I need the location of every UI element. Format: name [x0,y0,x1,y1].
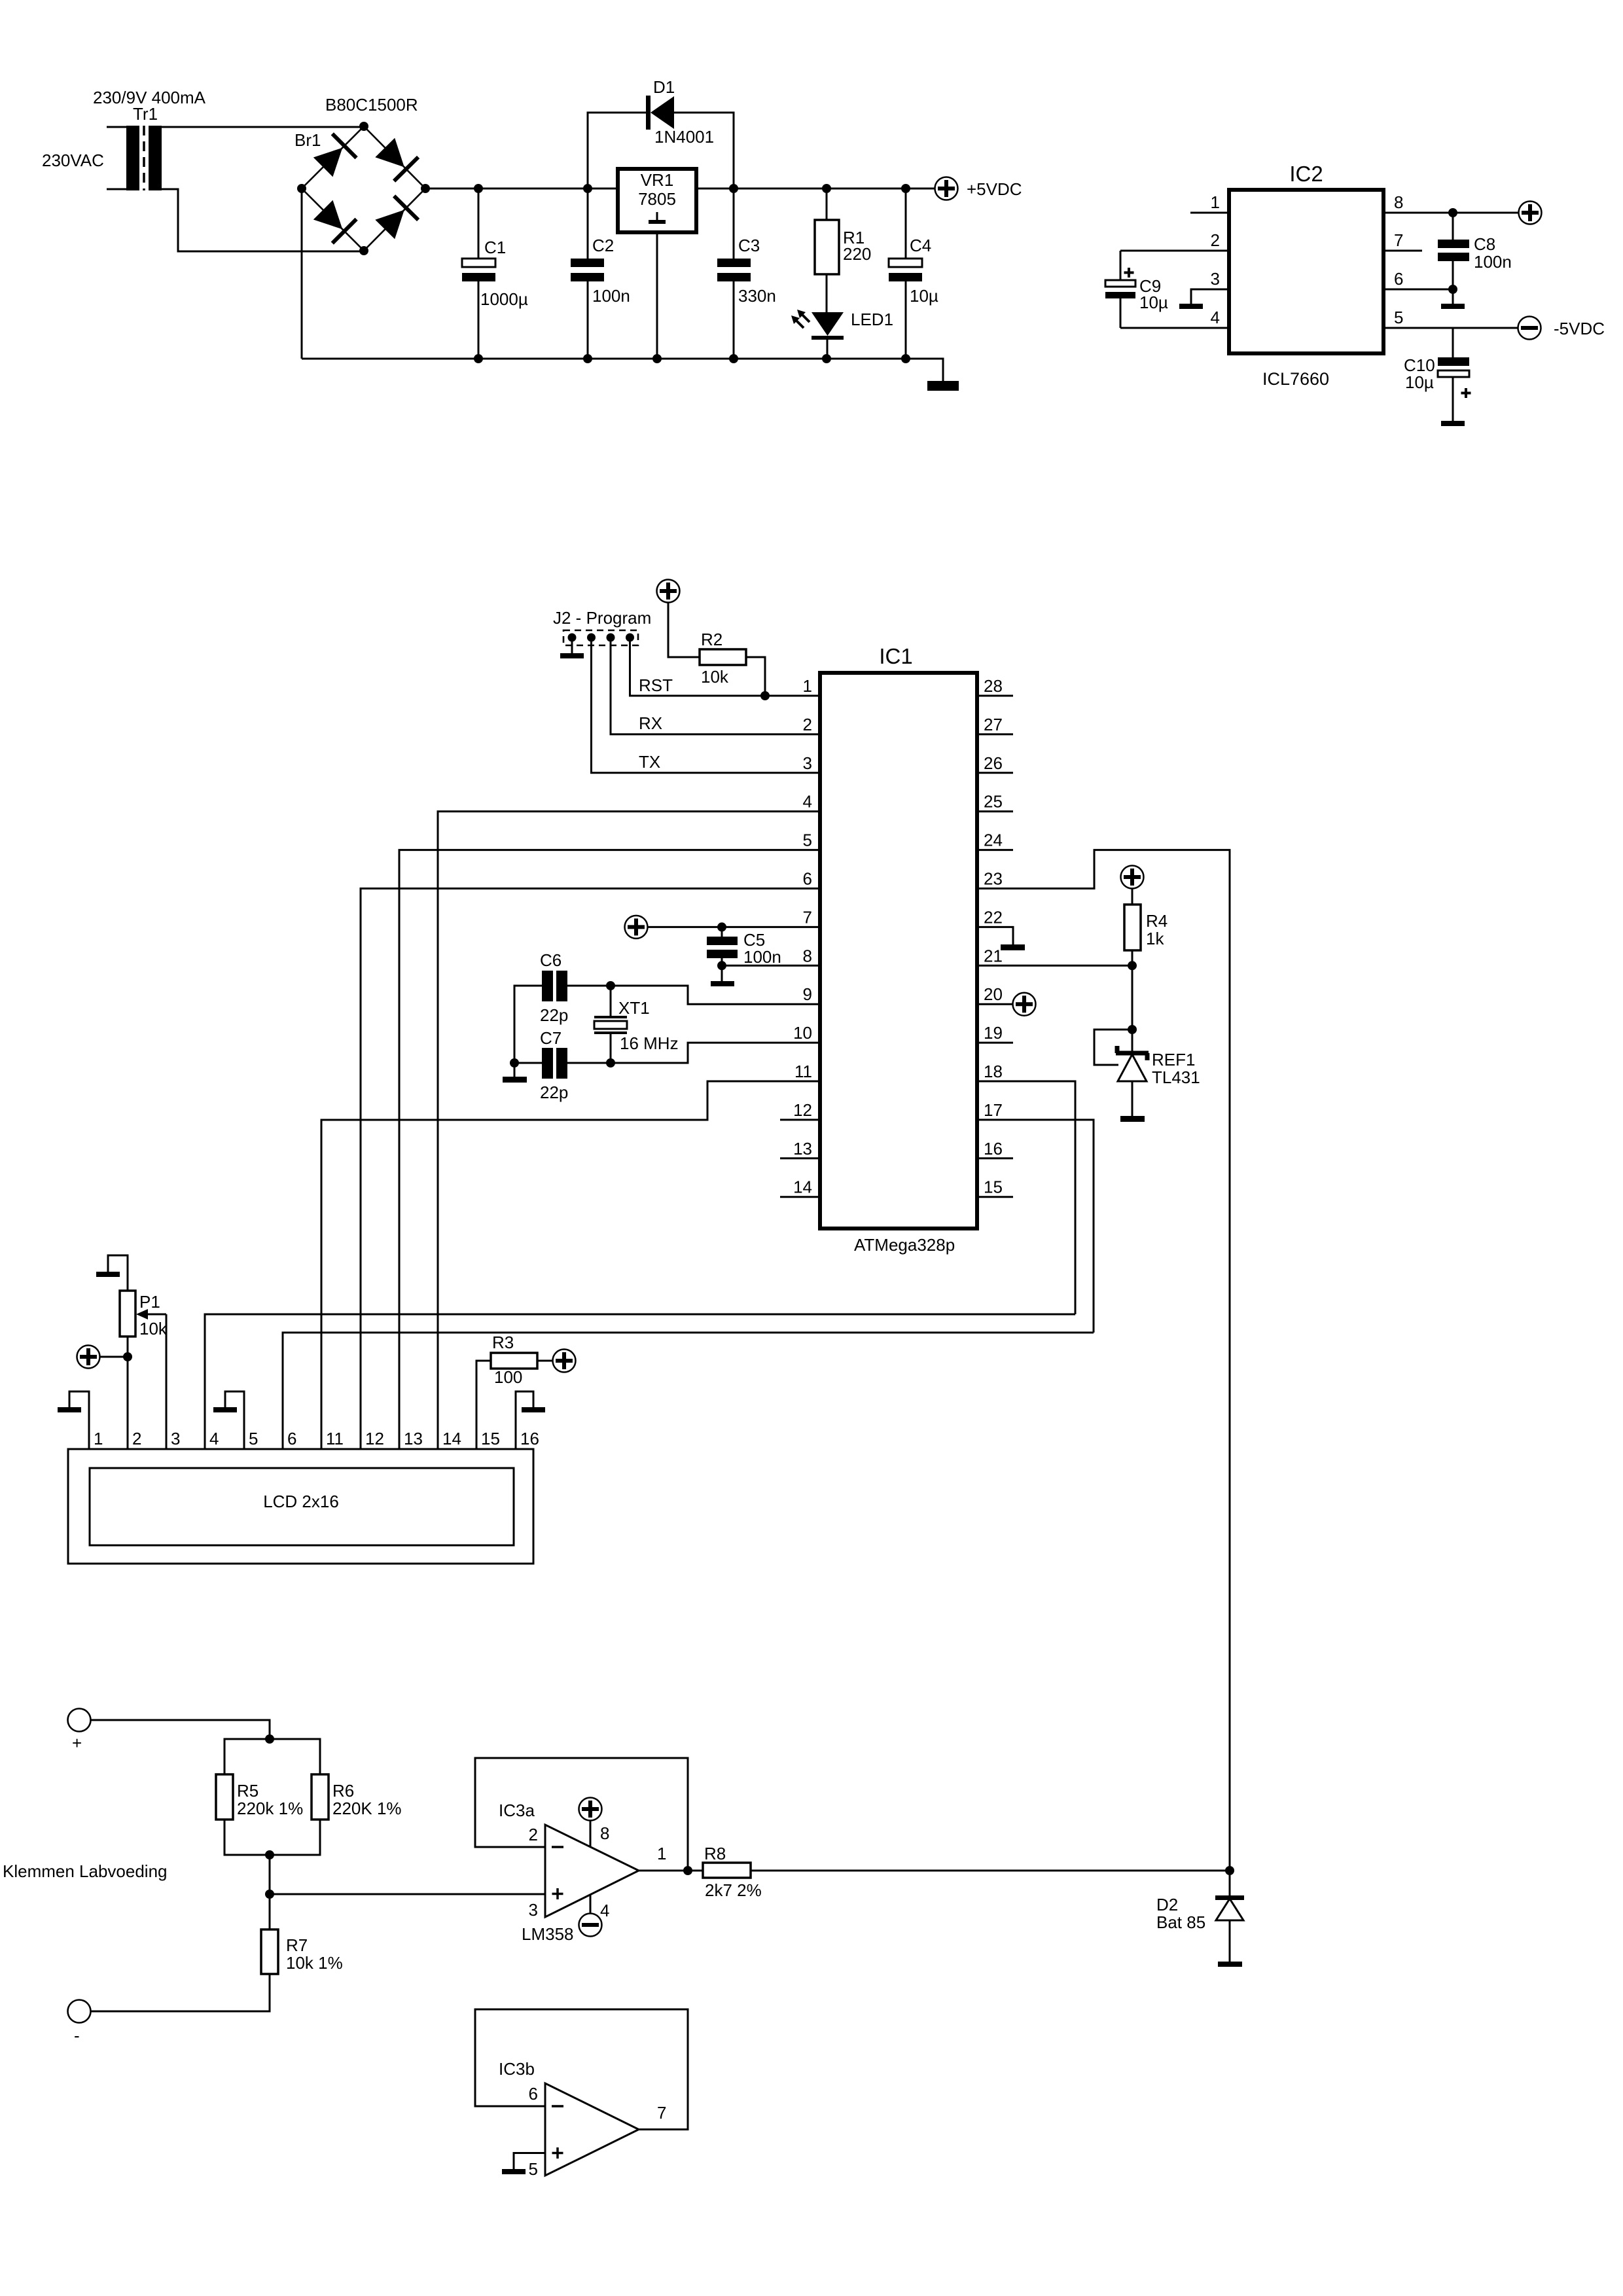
svg-text:-5VDC: -5VDC [1554,319,1605,338]
node right of bridge [421,184,430,193]
pin 6 IC2 [1383,289,1453,291]
svg-text:14: 14 [442,1429,461,1448]
svg-text:220k 1%: 220k 1% [237,1799,303,1818]
svg-text:19: 19 [984,1023,1003,1043]
svg-text:6: 6 [287,1429,296,1448]
svg-text:15: 15 [481,1429,500,1448]
ground at LCD pin 16 [522,1407,545,1412]
plus input terminal [68,1709,91,1732]
svg-text:1: 1 [1211,192,1220,212]
wire plus to R4 [1132,889,1133,905]
svg-text:B80C1500R: B80C1500R [325,95,418,115]
svg-text:100n: 100n [1474,252,1512,272]
wire IC1 pin 17 to LCD pin 6 riser [977,1120,1094,1333]
wire +5V rail right part [696,188,935,190]
schottky diode D2 Bat 85 [1229,1871,1231,1895]
wire IC1 pin 23 to right vertical rail [977,850,1230,1871]
pin 12 IC1 stub [780,1119,820,1121]
svg-text:-: - [74,2026,80,2045]
plus terminal above R4 [1121,866,1144,889]
IC3a plus sign [552,1888,563,1899]
wire VR1 ground pin [656,232,658,359]
svg-text:1N4001: 1N4001 [654,127,714,147]
diode D1 [588,113,647,188]
wire ground rail [302,359,943,381]
svg-text:1: 1 [94,1429,103,1448]
svg-text:16: 16 [520,1429,539,1448]
wire J2 pin1 to ground [571,637,573,653]
transformer Tr1 secondary winding [149,126,162,190]
svg-text:6: 6 [529,2084,538,2104]
IC3a minus sign [552,1846,563,1848]
svg-text:C1: C1 [484,238,506,257]
capacitor C9 [1120,251,1122,280]
transformer Tr1 primary winding [126,126,139,190]
svg-text:J2 - Program: J2 - Program [553,608,651,628]
svg-text:20: 20 [984,984,1003,1004]
pin 14 IC1 stub [780,1196,820,1198]
resistor R5 [216,1774,233,1820]
P1 wiper arrow to LCD pin 3 [145,1314,166,1316]
svg-text:4: 4 [209,1429,219,1448]
pin 25 IC1 stub [977,810,1013,812]
capacitor C4 [905,188,907,259]
svg-text:TX: TX [639,752,660,772]
svg-text:R5: R5 [237,1781,259,1801]
wire R5/R6 top rail [224,1739,320,1774]
svg-text:IC2: IC2 [1289,162,1323,186]
connector J2 dashed outline [563,630,638,645]
svg-text:10k: 10k [139,1319,168,1338]
minus supply terminal IC3a pin 4 [579,1914,602,1937]
svg-text:R4: R4 [1146,911,1168,931]
wire IC1 pin 7 [648,926,820,928]
svg-text:18: 18 [984,1062,1003,1081]
svg-text:C4: C4 [910,236,931,255]
svg-text:VR1: VR1 [641,170,674,190]
svg-text:10µ: 10µ [1139,293,1168,312]
svg-text:10k: 10k [701,667,729,687]
pin 13 IC1 stub [780,1157,820,1159]
svg-text:6: 6 [1394,269,1403,289]
svg-text:10: 10 [793,1023,812,1043]
pin 27 IC1 stub [977,733,1013,735]
ground below C10 [1441,421,1465,426]
svg-text:5: 5 [249,1429,258,1448]
svg-text:R2: R2 [701,630,722,649]
wire R2 to RST node [746,657,765,696]
ground above P1 [96,1272,120,1277]
svg-text:10µ: 10µ [910,286,938,306]
svg-text:28: 28 [984,676,1003,696]
ground at J2 [560,653,584,658]
svg-text:5: 5 [529,2159,538,2179]
bridge diode bottom-right [375,210,404,240]
wire plus to R2 [668,603,700,657]
svg-text:12: 12 [793,1100,812,1120]
svg-text:1: 1 [803,676,812,696]
svg-text:330n: 330n [738,286,776,306]
connector J2 pin 3 [607,634,615,642]
capacitor C3 [733,188,735,259]
IC3a feedback loop wire [475,1758,688,1871]
svg-text:C8: C8 [1474,234,1495,254]
op IC2 box [1229,190,1383,353]
wire IC1 pin 5 to LCD pin 13 [399,850,820,1449]
svg-text:220K 1%: 220K 1% [332,1799,402,1818]
svg-text:XT1: XT1 [618,998,650,1018]
svg-text:22p: 22p [540,1005,568,1025]
svg-text:10k 1%: 10k 1% [286,1953,343,1973]
plus terminal at IC1 pin 7 [625,916,648,939]
svg-text:LM358: LM358 [522,1924,574,1944]
LCD module outer box [68,1449,533,1564]
svg-text:IC3a: IC3a [499,1801,535,1820]
plus supply terminal IC3a pin 8 [579,1798,602,1821]
svg-text:220: 220 [843,244,871,264]
transformer Tr1 core (dashed) [143,126,145,190]
pin 24 IC1 stub [977,849,1013,851]
capacitor C8 [1452,213,1454,240]
terminal bar below D2 [1218,1962,1242,1967]
LCD module inner box [90,1468,514,1545]
wire IC1 pin 11 to LCD pin 11 [321,1081,820,1449]
svg-text:26: 26 [984,753,1003,773]
ground below C8 [1441,304,1465,309]
svg-text:23: 23 [984,869,1003,889]
LED1 emission arrows [794,312,810,328]
svg-text:R6: R6 [332,1781,354,1801]
pin 26 IC1 stub [977,772,1013,774]
LCD pin 6 wire (from IC1 pin 17) [283,1333,1094,1449]
svg-text:1: 1 [657,1844,666,1863]
ground at IC3b pin 5 [502,2169,526,2174]
svg-text:C6: C6 [540,950,562,970]
connector J2 pin 1 [568,634,577,642]
svg-text:RST: RST [639,675,673,695]
svg-text:IC3b: IC3b [499,2059,535,2079]
svg-text:22p: 22p [540,1083,568,1102]
resistor R6 [312,1774,329,1820]
plus terminal at IC1 pin 20 [977,1003,1013,1005]
IC3b minus sign [552,2105,563,2108]
IC3a output wire [639,1870,703,1872]
svg-text:+5VDC: +5VDC [967,179,1022,199]
svg-text:REF1: REF1 [1152,1050,1195,1069]
svg-text:P1: P1 [139,1292,160,1312]
wire R4 node down to REF1 [1132,965,1133,1053]
svg-text:13: 13 [793,1139,812,1158]
pin 4 IC2 [1120,327,1229,329]
svg-text:6: 6 [803,869,812,889]
resistor R2 [700,649,746,665]
capacitor C1 [478,188,480,259]
node divider top [265,1734,274,1744]
svg-text:5: 5 [803,831,812,850]
wire divider mid node [269,1855,271,1929]
pin 28 IC1 stub [977,695,1013,697]
minus terminal -5VDC [1518,317,1541,340]
resistor R8 [703,1863,751,1878]
wire IC1 pin 22 to ground [977,927,1013,944]
LCD pin 4 wire (from IC1 pin 18) [205,1314,1075,1449]
svg-text:7: 7 [803,907,812,927]
svg-text:4: 4 [600,1901,609,1920]
svg-text:17: 17 [984,1100,1003,1120]
LCD pin 15 wire to R3 [476,1361,491,1449]
svg-text:100n: 100n [743,947,781,967]
svg-text:2: 2 [1211,230,1220,250]
node left of bridge [297,184,306,193]
ground main symbol [927,381,959,391]
wire R3 to plus terminal [537,1360,552,1362]
node top of bridge [359,122,368,131]
svg-text:12: 12 [365,1429,384,1448]
op-amp IC3b [545,2083,639,2176]
resistor R7 [261,1929,278,1974]
wire C7 left stub [514,1062,542,1064]
svg-text:3: 3 [1211,269,1220,289]
svg-text:TL431: TL431 [1152,1067,1200,1087]
svg-text:4: 4 [1211,308,1220,327]
LCD pin 1 wire to ground [69,1391,89,1449]
wire to IC3a plus input [270,1893,545,1895]
wire IC1 pin 8 [722,965,820,967]
LCD pin 3 wire [166,1314,168,1449]
svg-text:7: 7 [1394,230,1403,250]
svg-text:Klemmen Labvoeding: Klemmen Labvoeding [3,1861,168,1881]
svg-text:5: 5 [1394,308,1403,327]
capacitor C2 [587,188,589,259]
svg-text:1000µ: 1000µ [480,289,528,309]
wire C6 right to crystal node [567,985,611,987]
svg-text:C3: C3 [738,236,760,255]
svg-text:C7: C7 [540,1028,562,1048]
op-amp IC3a [545,1825,639,1917]
wire primary top [107,126,126,128]
svg-text:15: 15 [984,1177,1003,1197]
pin 1 IC2 [1190,212,1229,214]
svg-text:3: 3 [529,1900,538,1920]
wire R7 to minus terminal [91,1974,270,2011]
svg-text:R3: R3 [492,1333,514,1352]
pin 16 IC1 stub [977,1157,1013,1159]
pin 8 IC2 [1383,212,1518,214]
wire IC1 pin 4 to LCD pin 14 [438,812,820,1449]
minus input terminal [68,2000,91,2023]
junction P1 bottom [123,1352,132,1361]
svg-text:1k: 1k [1146,929,1164,948]
svg-text:D2: D2 [1156,1895,1178,1914]
voltage regulator VR1 [618,169,696,232]
wire TX from J2 pin2 to IC1 pin 3 [592,637,821,773]
svg-text:11: 11 [326,1429,344,1448]
ground at IC2 pin 3 [1179,304,1203,309]
pin 7 IC2 [1383,250,1422,252]
ground below C6/C7 [503,1077,527,1083]
pin 2 IC2 [1120,250,1229,252]
svg-text:8: 8 [1394,192,1403,212]
ground at LCD pin 1 [58,1407,81,1412]
resistor R1 [826,188,828,220]
wire crystal bottom to IC1 pin 10 [611,1043,820,1063]
svg-text:Bat 85: Bat 85 [1156,1912,1205,1932]
wire crystal top to IC1 pin 9 [611,986,820,1004]
svg-text:R7: R7 [286,1935,308,1955]
svg-text:R8: R8 [704,1844,726,1863]
svg-text:RX: RX [639,713,662,733]
bridge rectifier Br1 frame [302,126,425,251]
svg-text:2k7 2%: 2k7 2% [705,1880,762,1900]
LCD pin 2 wire [127,1357,129,1449]
wire IC1 pin 6 to LCD pin 12 [361,889,820,1450]
node bottom of bridge [359,246,368,255]
wire secondary top to bridge [162,126,364,128]
+5VDC power terminal [935,177,958,200]
svg-text:2: 2 [529,1825,538,1844]
plus terminal at IC2 pin 8 [1519,202,1542,224]
wire +5V rail left part [425,188,618,190]
svg-text:21: 21 [984,946,1003,965]
plus terminal at LCD pin 2 [77,1346,100,1369]
svg-text:C2: C2 [592,236,614,255]
svg-text:230VAC: 230VAC [42,151,104,170]
svg-text:11: 11 [794,1062,812,1081]
wire RX from J2 pin3 to IC1 pin 2 [611,637,820,734]
connector J2 pin 2 [587,634,596,642]
pin 15 IC1 stub [977,1196,1013,1198]
svg-text:LCD 2x16: LCD 2x16 [263,1492,339,1511]
svg-text:7: 7 [657,2103,666,2123]
LCD pin 16 wire to ground [516,1391,533,1449]
bridge diode top-left [313,148,343,177]
svg-text:+: + [72,1733,82,1753]
svg-text:3: 3 [803,753,812,773]
ground at LCD pin 5 [213,1407,237,1412]
shunt reference REF1 TL431 [1116,1051,1149,1056]
bridge diode top-right [375,138,404,168]
IC3b plus sign [552,2147,563,2159]
svg-text:3: 3 [171,1429,180,1448]
svg-text:ICL7660: ICL7660 [1262,369,1329,389]
wire C7 right to crystal node [567,1062,611,1064]
pin 5 IC2 [1383,327,1518,329]
svg-text:2: 2 [803,715,812,734]
svg-text:27: 27 [984,715,1003,734]
ground below C5 [711,981,734,986]
LED LED1 [811,312,844,336]
REF1 reference wire loop [1094,1030,1132,1065]
wire C6 left to C7 left and ground [514,986,542,1077]
svg-text:4: 4 [803,792,812,812]
svg-text:Br1: Br1 [294,130,321,150]
plus terminal at R3 [553,1350,576,1372]
capacitor C10 [1452,328,1454,357]
microcontroller IC1 box [820,673,977,1229]
svg-text:7805: 7805 [638,189,676,209]
svg-text:16: 16 [984,1139,1003,1158]
ground below REF1 [1120,1116,1145,1122]
svg-text:9: 9 [803,984,812,1004]
capacitor C5 [717,922,726,931]
svg-text:ATMega328p: ATMega328p [854,1235,955,1255]
svg-text:13: 13 [404,1429,423,1448]
plus mark C9 [1124,268,1134,278]
pin 19 IC1 stub [977,1042,1013,1044]
pin 3 IC2 with ground [1191,289,1229,304]
wire bridge left node down to ground rail [301,188,303,359]
svg-text:10µ: 10µ [1405,372,1434,392]
wire IC1 pin 18 to LCD pin 4 riser [977,1081,1075,1314]
wire primary bottom [107,188,126,190]
IC3b feedback loop wire [475,2009,688,2130]
svg-text:8: 8 [803,946,812,965]
crystal XT1 [610,986,612,1017]
svg-text:100: 100 [494,1367,522,1387]
wire R8 to D2 node [751,1870,1230,1872]
svg-text:25: 25 [984,792,1003,812]
plus terminal above R2 [657,580,680,603]
bridge diode bottom-left [313,200,343,230]
svg-text:14: 14 [793,1177,812,1197]
wire IC1 pin 21 to R4 bottom node [977,965,1132,967]
svg-text:LED1: LED1 [851,310,893,329]
IC3b plus input to ground [514,2153,545,2170]
wire R5/R6 bottom rail [224,1820,320,1855]
svg-text:24: 24 [984,831,1003,850]
potentiometer P1 [127,1336,129,1357]
wire secondary bottom to bridge bottom node [162,189,364,251]
svg-text:IC1: IC1 [879,644,912,668]
connector J2 pin 4 [626,634,634,642]
svg-text:Tr1: Tr1 [133,104,158,124]
resistor R4 [1124,905,1141,950]
svg-text:2: 2 [132,1429,141,1448]
wire RST from J2 pin4 to IC1 pin 1 [630,637,821,696]
P1 top wire to ground [108,1255,128,1291]
svg-text:D1: D1 [653,77,675,97]
ground at IC1 pin 22 [1001,944,1025,950]
svg-text:16 MHz: 16 MHz [620,1033,679,1053]
svg-text:22: 22 [984,907,1003,927]
svg-text:100n: 100n [592,286,630,306]
resistor R3 [491,1353,537,1369]
wire plus terminal to divider top [91,1720,270,1739]
LCD pin 5 wire to ground [225,1391,244,1449]
plus mark C10 [1461,388,1471,398]
svg-text:8: 8 [600,1823,609,1843]
